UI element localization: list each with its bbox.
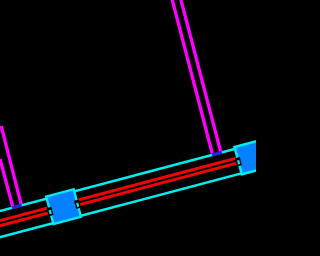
conduit run P2 line B (magenta) bbox=[180, 0, 220, 152]
cable run lower, middle segment (red) bbox=[79, 163, 237, 205]
conduit run P1 line B (magenta) bbox=[1, 126, 21, 205]
tray fitting at B1 left edge (black) bbox=[47, 207, 54, 216]
cable run lower, left segment (red) bbox=[0, 213, 49, 227]
conduit drop connector 1 (blue) bbox=[12, 204, 23, 210]
conduit drop connector 2 (blue) bbox=[212, 151, 223, 157]
cable tray bottom edge (cyan) bbox=[0, 171, 250, 237]
junction box B1 (blue, cyan outline) bbox=[46, 189, 81, 224]
cable run upper, left segment (red) bbox=[0, 208, 47, 222]
conduit run P2 line A (magenta) bbox=[172, 0, 213, 153]
fitting tick at B2 left edge (cyan) bbox=[237, 160, 240, 164]
conduit run P1 line A (magenta) bbox=[0, 159, 13, 208]
tray fitting at B1 right edge (black) bbox=[74, 199, 81, 208]
tray fitting at B2 left edge (black) bbox=[235, 157, 242, 166]
cable tray top edge (cyan) bbox=[0, 147, 244, 213]
equipment box B2 (blue, cyan outline) bbox=[235, 132, 300, 175]
fitting tick at B1 left edge (cyan) bbox=[49, 210, 52, 214]
cable run upper, middle segment (red) bbox=[78, 158, 236, 200]
fitting tick at B1 right edge (cyan) bbox=[76, 203, 79, 207]
